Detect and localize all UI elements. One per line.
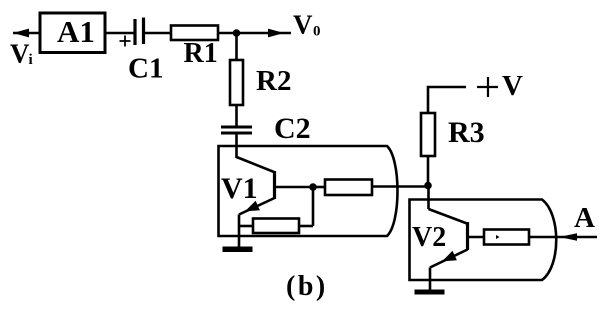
wire node to R2 bbox=[235, 33, 238, 60]
svg-text:A: A bbox=[574, 202, 595, 234]
power +V lead bbox=[428, 87, 466, 113]
svg-text:0: 0 bbox=[313, 24, 321, 40]
node junction at R1/R2 bbox=[233, 29, 241, 37]
arrow V1 emitter bbox=[245, 201, 260, 212]
wire lower resistor right bbox=[299, 225, 313, 228]
wire V2 resistor to A bbox=[529, 236, 597, 239]
wire C2 to V1 collector bbox=[235, 133, 238, 158]
op-amp block A1 bbox=[40, 13, 105, 53]
svg-text:C2: C2 bbox=[274, 112, 311, 145]
transistor V1 emitter bbox=[239, 198, 275, 215]
svg-text:R1: R1 bbox=[184, 38, 218, 69]
svg-text:V1: V1 bbox=[221, 172, 258, 205]
transistor V1 collector bbox=[237, 157, 275, 172]
transistor V2 base lead bbox=[468, 236, 485, 239]
svg-text:R2: R2 bbox=[256, 65, 291, 97]
wire Vi input lead bbox=[13, 32, 39, 35]
wire C1 to R1 bbox=[144, 32, 172, 35]
svg-text:(b): (b) bbox=[286, 271, 328, 302]
arrow Vi (points left) bbox=[13, 29, 29, 38]
wire R3 to node bbox=[427, 156, 430, 186]
wire base node down bbox=[312, 187, 315, 226]
arrow A (points left) bbox=[559, 233, 577, 241]
svg-text:A1: A1 bbox=[57, 14, 95, 49]
wire V2 emitter to ground bbox=[429, 268, 432, 291]
svg-text:V: V bbox=[293, 10, 313, 40]
svg-text:V: V bbox=[10, 39, 30, 69]
ground of V1 bbox=[223, 247, 253, 253]
node junction R3/V2 bbox=[424, 182, 432, 190]
wire node to V2 collector bbox=[427, 186, 430, 210]
resistor R1 bbox=[171, 26, 218, 70]
wire lower resistor left bbox=[239, 225, 253, 228]
label C1 bbox=[128, 53, 163, 85]
resistor V1 emitter-base (lower) bbox=[253, 219, 299, 234]
mark inside V2 base resistor bbox=[496, 235, 500, 239]
wire A1 to C1 bbox=[104, 32, 135, 35]
label V1 bbox=[221, 172, 258, 205]
resistor R3 bbox=[421, 113, 485, 156]
transistor V2 base bar bbox=[466, 222, 469, 250]
label +V bbox=[477, 70, 523, 102]
wire R2 to C2 bbox=[235, 105, 238, 127]
svg-text:R3: R3 bbox=[448, 116, 485, 149]
resistor V2 base bbox=[484, 230, 529, 245]
wire base node to feedback resistor bbox=[313, 186, 325, 189]
capacitor C1 bbox=[135, 18, 144, 46]
polarity plus of C1 bbox=[120, 36, 131, 47]
arrow V2 emitter bbox=[442, 251, 457, 262]
label C2 bbox=[274, 112, 311, 145]
resistor R2 bbox=[230, 60, 291, 105]
enclosure of V1 bbox=[219, 146, 398, 236]
enclosure of V2 bbox=[410, 200, 557, 281]
wire R1 to V0 bbox=[218, 32, 291, 35]
wire feedback resistor to R3 node bbox=[372, 185, 428, 188]
arrow V0 (points right) bbox=[268, 29, 284, 38]
label V2 bbox=[412, 222, 446, 253]
svg-text:i: i bbox=[29, 52, 33, 68]
caption (b) bbox=[286, 271, 328, 302]
wire V1 emitter to ground bbox=[238, 215, 241, 248]
svg-text:C1: C1 bbox=[128, 53, 163, 85]
ground of V2 bbox=[415, 290, 445, 295]
label Vi bbox=[10, 39, 33, 69]
transistor V1 base bar bbox=[273, 171, 276, 199]
label V0 bbox=[293, 10, 321, 40]
transistor V2 collector bbox=[429, 209, 468, 224]
transistor V2 emitter bbox=[430, 250, 468, 268]
node junction at V1 base bbox=[309, 183, 317, 191]
capacitor C2 bbox=[221, 127, 252, 133]
transistor V1 base lead bbox=[275, 186, 314, 189]
svg-text:V2: V2 bbox=[412, 222, 446, 253]
resistor feedback (V1 base to node) bbox=[325, 180, 372, 196]
svg-text:V: V bbox=[502, 70, 523, 102]
label A bbox=[574, 202, 595, 234]
